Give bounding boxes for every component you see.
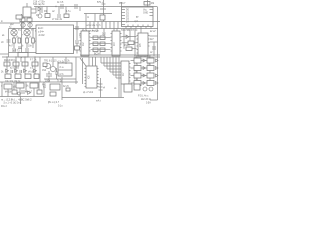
label mid cluster [45,61,70,83]
label cluster values [2,35,38,48]
resistor R10 left of U4 [122,41,137,45]
svg-text:4x 47k: 4x 47k [92,31,100,33]
wire verticals down from row3 [119,57,121,98]
resistor R28 second row [37,90,42,94]
label gate rows [134,57,150,81]
diode D7 bottom-left [28,91,31,94]
wire verticals left of U4 [124,29,135,56]
wire left cluster verticals [9,29,34,58]
resistor R20 [4,84,12,89]
resistor R18 [25,74,31,79]
gate diode A2 [156,59,159,62]
transistor Q2 [11,29,17,35]
IC U3 [111,29,122,57]
transistor Q3 [24,29,30,35]
gate diode C2 [156,74,159,77]
svg-text:0.5A: 0.5A [146,102,151,105]
svg-text:S10 cap 5v: S10 cap 5v [33,4,45,6]
resistor R3 [13,38,16,43]
junction dots on bus y28 [13,28,33,29]
resistor R7 bottom of cluster [18,53,28,59]
label bottom-right [138,96,152,105]
svg-text:k2 a7: k2 a7 [150,31,156,33]
wire mid bus [84,13,112,15]
svg-text:PB0-7: PB0-7 [119,3,126,5]
wire stubs from mid bus [86,14,95,22]
svg-text:F 7.2k: F 7.2k [30,60,37,62]
gate grid A2 [147,58,154,63]
gate grid C2 [147,73,154,78]
wire bus y21 [20,21,160,23]
relay module box T1 [58,63,72,76]
capacitor C2 on top bus [57,2,64,9]
wire staircase bus to U6 [101,57,121,78]
wire bus y28 [9,28,159,30]
gate grid B2 [147,66,154,71]
svg-text:7x 2k: 7x 2k [64,61,70,63]
svg-text:1N4: 1N4 [42,70,47,72]
gate grid D1 [134,81,141,86]
svg-text:[8x.x.x] 4.7: [8x.x.x] 4.7 [48,102,60,104]
svg-text:d4 d5: d4 d5 [28,72,34,74]
wire cluster bottom [9,52,37,54]
wire stubs into U5 top [89,57,96,66]
gate grid B1 [134,66,141,71]
label bottom-left row [1,98,32,105]
IC U4 [137,29,150,57]
resistor R25 bottom-right [124,84,132,92]
wire bus y97 [62,97,124,99]
svg-text:m→| 12.8k |→ 4xBC 5k6 2: m→| 12.8k |→ 4xBC 5k6 2 [1,98,32,102]
label bottom mid [48,102,63,108]
resistor R17 [15,74,21,79]
resistor R18b [34,74,39,79]
resistor R19 left of U4 row3 [126,47,137,51]
IC U2 [80,29,91,57]
resistor R12 [4,62,10,66]
box PCB module outline [36,25,74,54]
LED D6 [149,87,153,91]
wire vertical x62 [61,84,63,100]
resistor R6 [32,38,35,43]
capacitor C4 left [1,40,11,44]
svg-text:q1 x7 2n2: q1 x7 2n2 [83,92,94,94]
LED D8 bottom-left [18,92,21,95]
transistor Q4 mid cluster [45,63,50,68]
label bottom-left parts [1,86,33,94]
resistor R26 bottom-right [134,84,140,90]
label C16 [33,1,46,6]
capacitor C10 in left row [11,70,22,73]
svg-text:TR1 8:1 115: TR1 8:1 115 [44,61,57,63]
wire right of U5 down [99,78,103,98]
pin ticks inside U1 bottom [128,25,148,27]
pin stubs under U1 [126,27,151,29]
gate diode C1 [143,74,146,77]
diode D2 left of U4 [122,35,137,38]
gate grid D2 [147,81,154,86]
svg-text:1N: 1N [36,15,39,17]
resistor R14 [22,62,28,66]
transistor Q5 mid cluster [50,66,55,71]
wire stubs under U4 [141,56,145,57]
resistor R15 [32,62,38,66]
wire between ICs [91,29,111,50]
wire long bus y55 [80,54,160,56]
IC U5 [85,66,99,88]
svg-text:4M: 4M [151,3,154,5]
resistor R21 [16,83,24,88]
wire left of U5 [82,58,84,84]
svg-text:a b c d e f g h: a b c d e f g h [87,25,102,27]
resistor R11 right of box [75,46,80,50]
wire diagonal into U5 [80,58,86,66]
resistor R4 [18,38,21,43]
junction node [55,6,56,7]
wire mid cluster [44,57,76,84]
capacitor C7 [46,71,52,82]
box module M2 [43,84,69,90]
capacitor C5 column right of box [75,22,84,54]
wire gate rows [131,55,151,83]
wire long bus y57 [2,56,160,58]
wire bottom-left verticals [8,88,34,97]
capacitor C3 [66,4,80,13]
transistor Q1 cluster below K1 [20,17,32,29]
svg-text:P.O.L 4x c: P.O.L 4x c [138,96,149,98]
gate diode A1 [143,59,146,62]
svg-text:4.7u: 4.7u [66,11,71,13]
IC U6 [121,61,131,84]
wire stubs bottom-left [2,82,44,97]
wire top bus [34,6,158,8]
capacitor row in cluster [12,47,29,51]
wire bottom-right stub [150,99,158,101]
resistor R13 [13,62,19,66]
gate diode B2 [156,67,159,70]
junction dots row3 [6,56,35,57]
wire vertical to bus [100,0,106,22]
svg-text:0.1u: 0.1u [58,106,63,108]
connector J1 terminal strip [86,22,118,29]
svg-text:c7 10n 2k: c7 10n 2k [52,19,63,21]
diode D1 [36,7,42,18]
svg-text:C16 +7.35+: C16 +7.35+ [33,1,46,3]
svg-text:-0.002: -0.002 [38,35,45,37]
gate diode B1 [143,67,146,70]
LED D5 [143,87,147,91]
gate grid C1 [134,73,141,78]
svg-text:k4 10n: k4 10n [5,92,13,94]
wire left tall vertical [21,14,23,29]
wire cluster verticals row3 [7,57,40,82]
wire stub left row3 [20,57,22,62]
resistor R30 mid-bottom [66,88,70,91]
resistor R5 [26,38,29,43]
svg-text:o.04=: o.04= [38,31,44,33]
resistor ladder between ICs [93,36,105,52]
wire bus y82 left [0,81,78,83]
label dense block right of row [30,60,37,70]
wire right of U4 [150,36,158,56]
gate diode D2 [156,82,159,85]
diode D3 row [6,69,37,72]
capacitor C11 second row [22,90,24,94]
resistor R29 mid [43,63,47,67]
label between ICs [92,31,107,56]
wire left edge to cluster [0,53,9,55]
svg-text:GND: GND [143,13,148,15]
gate diode D1 [143,82,146,85]
resistor R22 [30,83,38,88]
svg-text:.5 o.1 +5 1k2 3n c: .5 o.1 +5 1k2 3n c [3,103,22,105]
resistor R16 [5,74,11,79]
IC U1 microcontroller top-right [122,7,154,27]
wire bus y96 left [0,96,44,98]
wire left edge stub [0,21,20,23]
gate grid A1 [134,58,141,63]
wire right edge vertical [157,7,159,100]
wire vertical bottom-left [20,97,22,105]
component row under top bus [38,7,69,22]
resistor R27 second row [12,90,17,94]
crystal X1 [144,0,154,7]
svg-text:Ex4=: Ex4= [38,28,44,30]
svg-text:1k 3.5: 1k 3.5 [57,2,64,4]
svg-text:mA t: mA t [96,100,101,103]
svg-text:1N48: 1N48 [124,45,130,47]
svg-text:FIG 2: FIG 2 [1,106,7,108]
svg-text:a2 d1 b3: a2 d1 b3 [10,68,20,70]
wire above U1 left [121,2,123,7]
capacitor C12 mid [55,68,58,79]
capacitor C9 [50,92,56,96]
resistor R2 left strip [10,15,22,26]
label between transistors [9,27,38,37]
relay K1 box top-left [23,3,36,17]
